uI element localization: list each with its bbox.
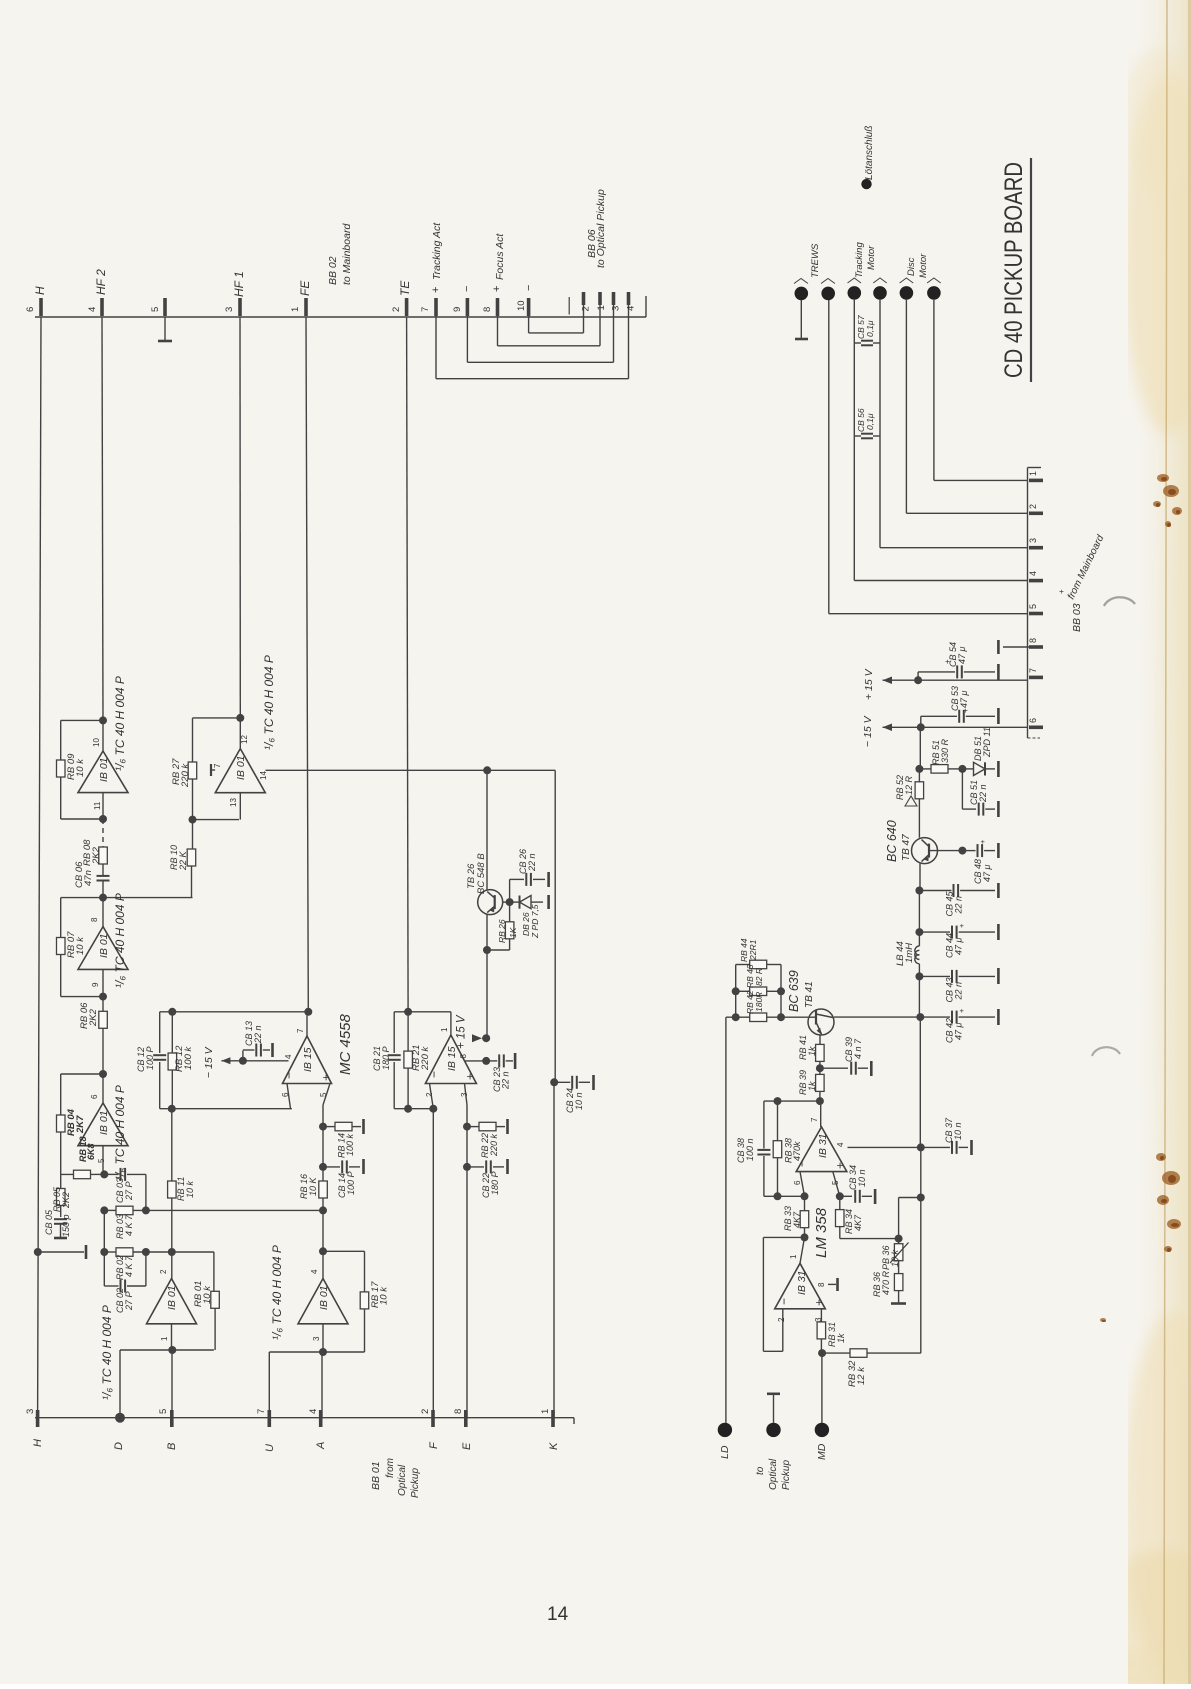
svg-text:14: 14 — [259, 771, 268, 780]
svg-text:MC 4558: MC 4558 — [337, 1013, 354, 1075]
svg-text:H: H — [32, 1439, 44, 1447]
resistor RB05 2K2 — [60, 1174, 62, 1190]
op-amp IB31 #2 (LM358) — [775, 1263, 826, 1309]
IB15#1 feedback loop RB12 CB12 — [306, 1012, 308, 1036]
svg-text:CD 40 PICKUP BOARD: CD 40 PICKUP BOARD — [1000, 162, 1028, 378]
svg-text:470k: 470k — [792, 1141, 802, 1161]
svg-text:2: 2 — [1028, 504, 1038, 509]
resistor RB06 2K2 — [102, 997, 104, 1011]
svg-text:BB 02: BB 02 — [327, 256, 339, 285]
svg-text:−: − — [282, 1072, 296, 1079]
connector BB02 pin ticks — [39, 298, 43, 316]
transistor TB26 BC548B — [478, 890, 503, 915]
svg-text:4 K 7: 4 K 7 — [124, 1214, 134, 1236]
svg-text:220 k: 220 k — [489, 1133, 499, 1157]
IB15#2 pin2 wire — [430, 1084, 434, 1109]
svg-text:100 k: 100 k — [183, 1046, 194, 1070]
svg-text:5: 5 — [150, 307, 161, 312]
capacitor CB03 27p row — [104, 1173, 118, 1175]
svg-text:11: 11 — [93, 801, 102, 810]
wire pin8 to BB06 pin1 — [497, 300, 499, 346]
svg-text:TREWS: TREWS — [810, 243, 821, 278]
svg-text:IB 01: IB 01 — [318, 1285, 330, 1310]
T4 feedback loop with resistor RB04 2K7 — [61, 1073, 103, 1075]
svg-text:220 k: 220 k — [180, 763, 191, 788]
svg-text:2: 2 — [420, 1409, 431, 1414]
capacitor CB26 22n — [509, 879, 511, 902]
svg-text:10 k: 10 k — [185, 1180, 195, 1198]
svg-text:10 n: 10 n — [574, 1092, 584, 1110]
IB15#2 feedback loop RB21 CB21 — [450, 1012, 452, 1035]
BB03 pin8 ground — [1003, 646, 1029, 648]
svg-text:150 p: 150 p — [61, 1214, 71, 1237]
svg-text:6: 6 — [1028, 718, 1038, 723]
svg-text:2K2: 2K2 — [61, 1192, 71, 1209]
svg-text:Optical: Optical — [397, 1464, 408, 1496]
node HF1 wire — [239, 317, 241, 718]
svg-text:+: + — [957, 1008, 966, 1013]
svg-text:12: 12 — [240, 735, 249, 744]
resistor RB16 10K on node A — [322, 1127, 324, 1167]
svg-text:22 n: 22 n — [501, 1071, 511, 1090]
svg-text:TE: TE — [398, 280, 412, 296]
svg-text:4: 4 — [310, 1269, 319, 1274]
capacitor CB44 47u — [919, 931, 950, 933]
svg-text:HF 1: HF 1 — [232, 271, 246, 297]
+15V supply arrow to IB15#2 pin8 — [465, 1060, 486, 1062]
capacitor CB05 150p — [54, 1218, 67, 1220]
svg-text:BB 03: BB 03 — [1071, 603, 1083, 632]
zener diode DB26 ZPD7.5 — [510, 901, 519, 903]
IB31#2 pin8 ground stub — [828, 1283, 836, 1285]
svg-text:47n: 47n — [83, 870, 94, 886]
-15V supply to IB15 pin4 — [221, 1060, 288, 1062]
capacitor CB14 100p stub — [319, 1163, 327, 1171]
svg-text:1k: 1k — [807, 1081, 817, 1091]
svg-text:10: 10 — [516, 300, 527, 311]
IB31#1 pin5 wire — [833, 1172, 840, 1197]
svg-text:Pickup: Pickup — [410, 1468, 421, 1498]
svg-text:FE: FE — [298, 280, 312, 296]
svg-text:¹/₆ TC 40 H 004 P: ¹/₆ TC 40 H 004 P — [100, 1305, 114, 1400]
svg-text:+: + — [1057, 589, 1066, 594]
zener diode DB51 ZPD11 — [962, 768, 973, 770]
T2 pin7 stub — [211, 769, 215, 771]
svg-text:D: D — [113, 1442, 125, 1450]
wire Tracking+ to BB03 pin3 — [880, 547, 1028, 549]
capacitor CB22 180p stub — [463, 1163, 471, 1171]
capacitor CB42 47u — [918, 976, 920, 1017]
svg-text:180R: 180R — [754, 992, 764, 1012]
svg-text:+: + — [812, 1299, 826, 1306]
pad optical return with stub — [766, 1423, 780, 1437]
svg-text:4: 4 — [1028, 571, 1038, 576]
svg-text:IB 15: IB 15 — [302, 1047, 314, 1072]
resistor RB39 1k — [819, 1068, 821, 1074]
capacitor CB51 22n — [961, 769, 963, 809]
node above T4 — [99, 1070, 107, 1078]
capacitor CB37 10n row — [848, 1146, 921, 1148]
resistor RB41 1k — [819, 1035, 821, 1046]
svg-text:100 P: 100 P — [145, 1046, 155, 1070]
svg-text:¹/₆ TC 40 H 004 P: ¹/₆ TC 40 H 004 P — [113, 893, 127, 988]
svg-text:8: 8 — [817, 1282, 826, 1287]
svg-text:100 k: 100 k — [345, 1133, 355, 1156]
svg-text:22 n: 22 n — [527, 853, 537, 872]
TREWS left stub — [800, 300, 802, 339]
svg-text:2K7: 2K7 — [75, 1115, 86, 1134]
svg-text:Motor: Motor — [918, 253, 929, 278]
op-amp T3 IB01 — [78, 927, 128, 970]
node F wire — [432, 1109, 434, 1418]
svg-text:+: + — [491, 286, 503, 292]
node H test stub — [34, 1248, 42, 1256]
svg-text:IB 01: IB 01 — [166, 1285, 178, 1310]
svg-text:4: 4 — [284, 1054, 293, 1059]
svg-text:47 μ: 47 μ — [959, 690, 969, 708]
svg-text:Disc: Disc — [906, 257, 917, 276]
svg-text:47 μ: 47 μ — [953, 937, 963, 955]
connector BB01 pin ticks — [36, 1410, 40, 1427]
svg-text:Motor: Motor — [866, 245, 877, 270]
TREWS pads — [795, 287, 809, 301]
svg-text:22R1: 22R1 — [748, 939, 758, 961]
svg-text:8: 8 — [459, 1054, 468, 1059]
resistor RB11 10K on node B — [171, 1109, 173, 1181]
svg-text:1: 1 — [540, 1409, 551, 1414]
svg-text:7: 7 — [1028, 668, 1038, 673]
svg-text:IB 01: IB 01 — [98, 933, 110, 958]
capacitor CB24 10n on node K — [550, 1078, 558, 1086]
transistor TB41 BC639 — [808, 1009, 834, 1035]
svg-text:4 n 7: 4 n 7 — [853, 1038, 863, 1059]
svg-text:2K2: 2K2 — [88, 1008, 99, 1027]
connector BB02 bus — [35, 316, 646, 318]
svg-text:10 k: 10 k — [75, 936, 86, 955]
TREWS right wire to BB03 pin5 — [828, 300, 830, 614]
svg-text:3: 3 — [460, 1092, 469, 1097]
capacitor CB53 47u on +15V — [917, 672, 919, 680]
svg-text:7: 7 — [213, 763, 222, 768]
op-amp IB31 #1 (LM358) — [796, 1127, 847, 1172]
svg-text:3: 3 — [611, 306, 622, 311]
svg-text:100 n: 100 n — [745, 1138, 755, 1161]
svg-text:LD: LD — [719, 1445, 731, 1459]
svg-text:0,1μ: 0,1μ — [865, 320, 875, 337]
svg-text:7: 7 — [810, 1117, 819, 1122]
svg-text:22 n: 22 n — [978, 784, 988, 803]
svg-text:4: 4 — [87, 307, 98, 312]
svg-text:IB 01: IB 01 — [98, 757, 110, 782]
op-amp T6 IB01 — [298, 1279, 348, 1324]
capacitor CB06 47n — [97, 875, 110, 877]
pad LD — [725, 1017, 727, 1423]
op-amp IB15 #1 (MC4558) — [283, 1036, 332, 1084]
svg-text:47 μ: 47 μ — [957, 646, 967, 664]
svg-text:3: 3 — [25, 1409, 36, 1414]
svg-text:6K8: 6K8 — [86, 1143, 96, 1160]
svg-text:BB 01: BB 01 — [370, 1461, 382, 1490]
node above T3 — [99, 894, 107, 902]
T2 feedback loop with resistor RB27 220k — [236, 714, 244, 722]
svg-text:1mH: 1mH — [904, 943, 915, 963]
svg-text:8: 8 — [453, 1409, 464, 1414]
IB31#2 output riser — [800, 1237, 805, 1263]
svg-text:1: 1 — [1028, 471, 1038, 476]
op-amp T5 IB01 — [147, 1279, 197, 1324]
wire pin7 to BB06 pin4 — [435, 300, 437, 379]
svg-text:IB 31: IB 31 — [796, 1270, 808, 1295]
svg-text:180 P: 180 P — [381, 1046, 391, 1070]
svg-text:from: from — [385, 1458, 396, 1478]
svg-text:2: 2 — [391, 307, 402, 312]
svg-text:22 K: 22 K — [178, 850, 188, 871]
resistor RB26 1K — [487, 949, 510, 951]
resistor RB36 470R — [894, 1274, 903, 1291]
svg-text:+ 15 V: + 15 V — [863, 668, 875, 700]
capacitor CB02 27p loop — [103, 1252, 105, 1286]
T5 wires — [171, 1252, 173, 1279]
svg-text:6: 6 — [25, 307, 36, 312]
wire D to T5 input — [119, 1350, 121, 1418]
svg-text:K: K — [548, 1442, 560, 1450]
wire Tracking- to BB03 pin4 — [853, 436, 855, 581]
IB15#1 pin6 wire — [287, 1084, 291, 1109]
resistor RB33 4K7 — [804, 1196, 806, 1211]
driver rail from -15V — [919, 727, 921, 769]
wire RB34 to rail — [840, 1238, 899, 1240]
svg-text:1K: 1K — [508, 927, 518, 938]
svg-text:9: 9 — [452, 307, 463, 312]
svg-text:13: 13 — [229, 798, 238, 807]
svg-text:+: + — [463, 1073, 477, 1080]
svg-text:to Optical Pickup: to Optical Pickup — [595, 189, 607, 268]
+15V rail — [883, 679, 1028, 681]
svg-text:1: 1 — [290, 307, 301, 312]
svg-text:8: 8 — [482, 307, 493, 312]
T6 feedback loop with resistor RB17 10k — [319, 1247, 327, 1255]
resistor RB51 330R — [919, 768, 931, 770]
node FE wire — [306, 317, 308, 1012]
op-amp T1 IB01 (HF2 buffer) — [78, 751, 128, 793]
capacitor CB13 22n — [239, 1057, 247, 1065]
svg-text:Z PD 7,5: Z PD 7,5 — [530, 904, 540, 939]
svg-text:7: 7 — [256, 1409, 267, 1414]
node HF2 wire — [102, 317, 103, 720]
svg-text:¹/₆ TC 40 H 004 P: ¹/₆ TC 40 H 004 P — [113, 1085, 127, 1180]
op-amp T4 IB01 — [78, 1103, 128, 1146]
svg-text:22 n: 22 n — [953, 896, 963, 915]
svg-text:8: 8 — [90, 917, 99, 922]
svg-text:7: 7 — [420, 307, 431, 312]
svg-text:10 k: 10 k — [202, 1285, 213, 1304]
capacitor CB48 47u — [929, 850, 962, 852]
node K wire — [554, 770, 556, 1082]
svg-text:2: 2 — [581, 306, 592, 311]
junction D on BB01 — [115, 1413, 125, 1423]
svg-text:6: 6 — [90, 1094, 99, 1099]
wire T1 out to RB08 — [102, 819, 104, 847]
svg-text:BC 639: BC 639 — [787, 970, 801, 1012]
svg-text:to Mainboard: to Mainboard — [341, 223, 353, 285]
-15V rail — [883, 726, 1028, 728]
svg-text:10 k: 10 k — [379, 1286, 390, 1305]
svg-text:12 R: 12 R — [904, 775, 914, 795]
svg-text:+: + — [833, 1162, 847, 1169]
svg-text:2: 2 — [777, 1317, 786, 1322]
resistor RB08 2K2 — [99, 847, 108, 864]
svg-text:Pickup: Pickup — [781, 1460, 792, 1490]
rail main vertical — [919, 1017, 921, 1147]
capacitor CB34 10n — [840, 1195, 852, 1197]
svg-text:4 K 7: 4 K 7 — [124, 1255, 134, 1277]
svg-text:4K7: 4K7 — [792, 1211, 802, 1228]
svg-text:0,1μ: 0,1μ — [865, 413, 875, 430]
svg-text:14: 14 — [547, 1604, 569, 1625]
svg-text:1: 1 — [596, 305, 607, 310]
T2 output wire to K — [266, 769, 556, 771]
svg-text:IB 01: IB 01 — [235, 755, 247, 780]
svg-text:U: U — [264, 1444, 276, 1452]
svg-text:22 n: 22 n — [253, 1025, 263, 1044]
svg-text:10 n: 10 n — [857, 1169, 867, 1187]
svg-text:27 P: 27 P — [124, 1291, 134, 1311]
resistor RB14 100k stub — [319, 1123, 327, 1131]
connector BB03 — [1027, 468, 1029, 739]
TB41 collector wire — [834, 1016, 920, 1018]
capacitor CB43 22n — [919, 975, 950, 977]
svg-text:A: A — [315, 1442, 327, 1450]
feedback row CB38 RB38 — [764, 1100, 820, 1102]
svg-text:−: − — [777, 1298, 791, 1305]
capacitor CB39 4n7 — [820, 1067, 848, 1069]
node H wire — [38, 317, 41, 1418]
svg-text:10 k: 10 k — [75, 758, 86, 777]
svg-text:Tracking Act: Tracking Act — [431, 222, 443, 280]
capacitor CB53 47u on -15V — [920, 716, 922, 727]
svg-text:BC 548 B: BC 548 B — [476, 853, 487, 894]
svg-text:470 R: 470 R — [881, 1270, 891, 1295]
svg-text:MD: MD — [816, 1443, 828, 1460]
svg-text:10: 10 — [92, 738, 101, 747]
svg-text:¹/₆ TC 40 H 004 P: ¹/₆ TC 40 H 004 P — [113, 676, 127, 771]
svg-text:+ 15 V: + 15 V — [456, 1014, 468, 1049]
node TE wire — [407, 317, 409, 1012]
svg-text:4K7: 4K7 — [853, 1214, 863, 1231]
svg-text:5: 5 — [158, 1409, 169, 1414]
svg-text:47 μ: 47 μ — [953, 1022, 963, 1040]
connector BB01 bus — [35, 1417, 574, 1419]
svg-text:− 15 V: − 15 V — [862, 715, 874, 747]
svg-text:+: + — [430, 287, 442, 293]
resistor ladder RB42 RB43 RB44 — [726, 1016, 750, 1018]
svg-text:1: 1 — [789, 1254, 798, 1259]
wire Disc+ to BB03 pin1 — [933, 300, 935, 481]
RB36 ground — [891, 1302, 906, 1305]
capacitor CB23 22n — [486, 1060, 497, 1062]
IB31#1 pin6 wire — [800, 1172, 805, 1197]
svg-text:3: 3 — [224, 307, 235, 312]
svg-text:Optical: Optical — [768, 1458, 779, 1490]
resistor RB01 10k — [213, 1252, 215, 1291]
IB31#1 output riser — [820, 1101, 822, 1127]
capacitor CB57 0.1u — [853, 300, 855, 436]
pad MD — [821, 1353, 823, 1423]
svg-text:−: − — [523, 285, 535, 291]
wire Disc- to BB03 pin2 — [905, 300, 907, 514]
svg-text:4: 4 — [836, 1142, 845, 1147]
IB31#2 pin2 loop — [782, 1309, 784, 1352]
svg-text:+: + — [957, 923, 966, 928]
svg-text:Tracking: Tracking — [854, 242, 865, 278]
svg-text:¹/₆ TC 40 H 004 P: ¹/₆ TC 40 H 004 P — [270, 1245, 284, 1340]
BB06 bracket ticks — [568, 297, 570, 315]
svg-text:TB 47: TB 47 — [901, 834, 912, 861]
svg-text:B: B — [166, 1443, 178, 1450]
resistor RB18 6K8 horizontal — [61, 1173, 95, 1175]
svg-text:27 P: 27 P — [124, 1181, 134, 1201]
svg-text:2: 2 — [425, 1092, 434, 1097]
T1 feedback loop with resistor RB09 — [99, 716, 107, 724]
svg-text:+: + — [978, 839, 987, 844]
svg-text:47 μ: 47 μ — [982, 864, 992, 882]
svg-text:10 K: 10 K — [308, 1176, 318, 1196]
wire pin10 to BB06 pin2 — [528, 300, 530, 333]
svg-text:HF 2: HF 2 — [94, 269, 108, 295]
transistor TB47 BC640 — [912, 838, 938, 864]
svg-text:Focus Act: Focus Act — [494, 233, 506, 280]
svg-text:7: 7 — [296, 1028, 305, 1033]
svg-text:RB 26: RB 26 — [497, 919, 507, 943]
svg-text:12 k: 12 k — [856, 1366, 867, 1385]
svg-text:−: − — [427, 1071, 441, 1078]
svg-text:TB 41: TB 41 — [804, 981, 815, 1008]
node U wire — [268, 1352, 270, 1418]
svg-text:3: 3 — [312, 1336, 321, 1341]
svg-text:−: − — [461, 286, 473, 292]
svg-text:2K2: 2K2 — [91, 846, 102, 865]
Tracking Motor pads — [848, 286, 862, 300]
connector BB06 pin ticks — [582, 292, 586, 305]
svg-text:6: 6 — [793, 1180, 802, 1185]
svg-text:220 k: 220 k — [420, 1046, 431, 1071]
IB15#1 pin5 wire to node A — [323, 1084, 330, 1106]
svg-text:330 R: 330 R — [940, 738, 950, 763]
svg-text:5: 5 — [97, 1158, 106, 1163]
svg-text:− 15 V: − 15 V — [203, 1046, 215, 1078]
supply column from T2 output line — [483, 766, 491, 774]
resistor RB31 1k — [820, 1309, 822, 1323]
svg-text:10 k: 10 k — [890, 1249, 900, 1267]
trimmer PB36 10k — [898, 1239, 900, 1245]
svg-text:¹/₆ TC 40 H 004 P: ¹/₆ TC 40 H 004 P — [262, 655, 276, 750]
svg-text:Lötanschluß: Lötanschluß — [864, 126, 875, 180]
svg-text:H: H — [33, 286, 47, 295]
svg-text:CB 05: CB 05 — [44, 1209, 54, 1235]
node T4 output — [100, 1170, 108, 1178]
svg-text:4: 4 — [308, 1409, 319, 1414]
svg-text:IB 31: IB 31 — [817, 1133, 829, 1158]
svg-text:10 n: 10 n — [953, 1122, 963, 1140]
svg-text:2: 2 — [159, 1269, 168, 1274]
T3 feedback loop with resistor RB07 10k — [61, 897, 103, 899]
svg-text:LM 358: LM 358 — [813, 1207, 830, 1258]
svg-text:180 P: 180 P — [490, 1171, 500, 1195]
svg-text:E: E — [461, 1442, 473, 1450]
solder pad Loetanschluss — [861, 179, 871, 189]
resistor RB03 4K7 row — [104, 1209, 116, 1211]
resistor RB34 4K7 — [839, 1196, 841, 1210]
